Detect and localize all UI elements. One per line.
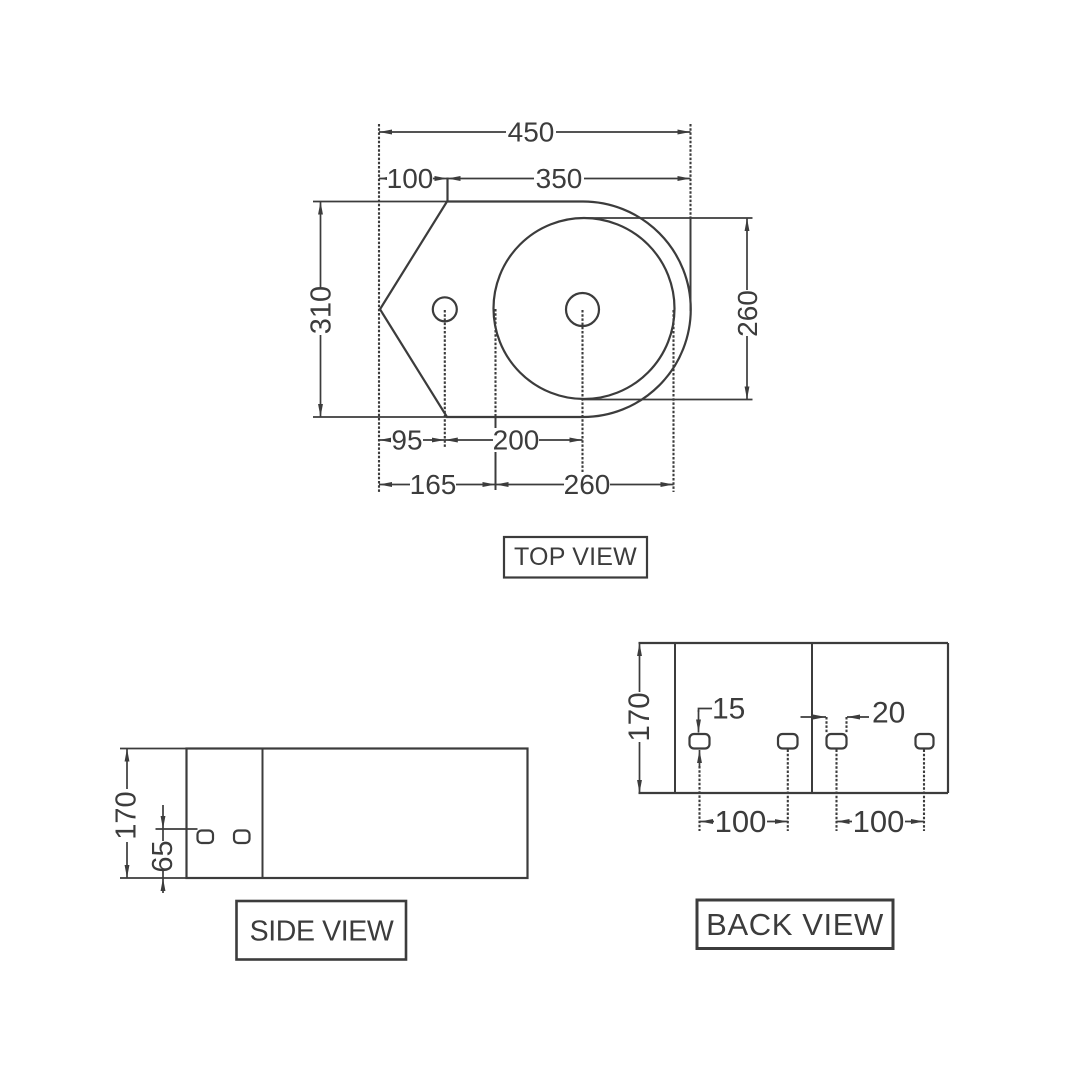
svg-text:200: 200 xyxy=(493,425,540,456)
back dimension 100 left xyxy=(700,821,788,823)
dimension 310 xyxy=(320,202,322,418)
svg-text:TOP VIEW: TOP VIEW xyxy=(514,543,637,571)
side 170 extension top xyxy=(120,748,187,750)
slot2 extension down xyxy=(787,750,789,832)
svg-text:100: 100 xyxy=(715,804,767,839)
side view hole 2 xyxy=(234,831,250,844)
extension line circle right edge xyxy=(672,310,674,492)
TOP VIEW label box xyxy=(504,537,647,578)
svg-text:100: 100 xyxy=(387,163,434,194)
svg-text:310: 310 xyxy=(306,286,338,334)
svg-text:350: 350 xyxy=(536,163,583,194)
side dimension 65 xyxy=(162,829,164,878)
back view top edge xyxy=(639,642,949,644)
side 65 extension line xyxy=(156,828,198,830)
310 extension top xyxy=(313,201,447,203)
back view right edge xyxy=(947,643,949,793)
back view slot 4 xyxy=(916,734,934,749)
basin outline (top view) xyxy=(380,202,691,418)
extension line left x379 xyxy=(378,124,380,492)
back view slot 3 xyxy=(827,734,847,749)
label 20 left arrow xyxy=(801,716,827,718)
back view bottom edge xyxy=(639,792,949,794)
slot4 extension down xyxy=(923,750,925,832)
svg-text:450: 450 xyxy=(508,117,555,148)
side 65 bottom outside arrow xyxy=(162,878,164,893)
slot3 right edge extension xyxy=(845,717,847,733)
svg-text:95: 95 xyxy=(391,425,422,456)
back view internal line left xyxy=(674,643,676,793)
dimension 350 xyxy=(448,178,691,180)
side 170 extension bottom xyxy=(120,877,187,879)
slot3 left edge extension xyxy=(825,717,827,733)
side 65 top outside arrow xyxy=(162,805,164,829)
svg-text:100: 100 xyxy=(853,804,905,839)
svg-text:SIDE VIEW: SIDE VIEW xyxy=(250,916,394,948)
side dimension 170 xyxy=(126,749,128,879)
dimension 260 right xyxy=(746,218,748,400)
dimension 165 xyxy=(379,484,496,486)
label 15 leader xyxy=(699,709,713,713)
svg-text:15: 15 xyxy=(712,693,745,726)
back view slot 1 xyxy=(690,734,710,749)
SIDE VIEW label box xyxy=(237,901,407,960)
back view slot 2 xyxy=(778,734,798,749)
extension line right x690.5 dotted xyxy=(689,124,691,219)
dimension 100 (top) xyxy=(379,178,448,180)
260 extension bottom xyxy=(584,399,753,401)
svg-text:260: 260 xyxy=(732,290,763,337)
svg-text:170: 170 xyxy=(111,791,143,839)
slot3 extension down xyxy=(835,750,837,832)
extension line circle left edge solid xyxy=(495,417,497,490)
extension line circle left edge dotted xyxy=(494,309,496,417)
svg-text:BACK VIEW: BACK VIEW xyxy=(706,907,884,942)
dimension 260 bottom xyxy=(496,484,674,486)
svg-text:170: 170 xyxy=(623,692,656,741)
faucet hole xyxy=(433,297,457,321)
side view hole 1 xyxy=(198,831,214,844)
side view body xyxy=(187,749,528,879)
svg-text:20: 20 xyxy=(872,697,905,730)
dimension 200 xyxy=(445,439,583,441)
svg-text:165: 165 xyxy=(410,469,457,500)
back dimension 170 xyxy=(639,643,641,793)
BACK VIEW label box xyxy=(697,900,893,949)
extension line drain center xyxy=(581,310,583,492)
260 extension top xyxy=(584,217,753,219)
tick at 100/350 boundary xyxy=(446,178,448,203)
back dimension 100 right xyxy=(837,821,925,823)
slot1 extension down xyxy=(698,766,700,831)
svg-text:260: 260 xyxy=(564,469,611,500)
dimension 450 xyxy=(379,131,691,133)
extension line right x690.5 solid xyxy=(690,219,692,311)
side view internal line xyxy=(262,749,264,879)
back view internal line middle xyxy=(811,643,813,793)
dimension 95 xyxy=(379,439,445,441)
extension line faucet center xyxy=(444,310,446,448)
label 20 right arrow xyxy=(847,716,869,718)
310 extension bottom xyxy=(313,416,447,418)
basin bowl circle xyxy=(494,218,675,399)
slot1 up arrow xyxy=(699,750,701,768)
svg-text:65: 65 xyxy=(147,840,179,872)
drain hole xyxy=(566,293,599,326)
label 15 down arrow xyxy=(698,710,700,733)
